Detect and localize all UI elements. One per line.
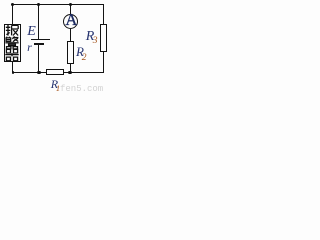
wire left upper (alarm top lead): [12, 4, 13, 24]
wire battery branch lower: [38, 45, 39, 73]
resistor R1 subscript 1: [56, 84, 60, 93]
alarm box (报警器): [4, 24, 21, 62]
wire left lower (alarm bottom lead): [12, 62, 13, 73]
node junction dot battery bottom: [37, 71, 40, 74]
resistor R3 subscript 3: [93, 37, 98, 47]
resistor R2 body: [67, 41, 74, 65]
resistor R3 label: [86, 30, 95, 44]
battery label E: [27, 25, 36, 39]
wire R2 to bottom: [70, 64, 71, 73]
alarm box characters 报警器 as SVG strokes: [5, 24, 20, 62]
node junction dot R2 bottom: [68, 71, 71, 74]
resistor R1 label: [51, 78, 58, 90]
battery long plate: [31, 39, 50, 40]
watermark fen5.com: [60, 85, 103, 94]
resistor R2 subscript 2: [82, 54, 87, 64]
resistor R3 body: [100, 24, 107, 52]
wire top horizontal: [12, 4, 104, 5]
ammeter U (circle): [63, 14, 78, 29]
wire bottom horizontal: [12, 72, 104, 73]
node junction dot top-left: [11, 3, 14, 6]
resistor R1 body: [46, 69, 65, 75]
char 警: [5, 37, 18, 50]
wire right side lower: [103, 52, 104, 74]
char 报: [5, 25, 17, 36]
battery label r: [27, 41, 32, 53]
wire right side upper: [103, 4, 104, 24]
wire ammeter branch upper: [70, 4, 71, 14]
wire ammeter to R2: [70, 29, 71, 41]
char 器: [5, 50, 18, 61]
node junction dot ammeter top: [69, 3, 72, 6]
battery short plate: [34, 43, 44, 45]
resistor R2 label: [76, 45, 84, 58]
wire battery branch upper: [38, 4, 39, 39]
ammeter letter A: [65, 12, 77, 29]
node junction dot battery top: [37, 3, 40, 6]
node corner blob bottom-left: [12, 71, 15, 74]
